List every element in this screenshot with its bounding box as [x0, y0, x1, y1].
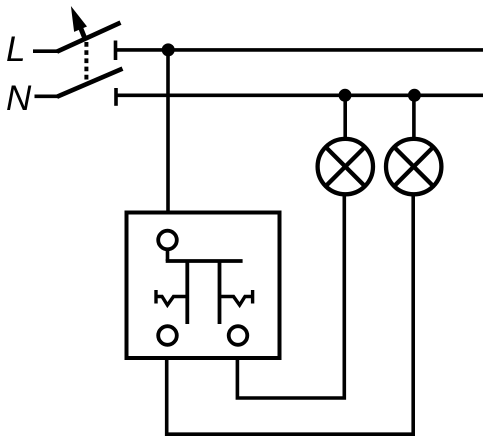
- internal horizontal bar: [166, 259, 243, 263]
- contact T-bar (N pole): [114, 88, 118, 106]
- wire N bus to lamp E1: [343, 95, 347, 140]
- actuator arrow shaft: [80, 26, 86, 40]
- wire N stub: [35, 95, 59, 99]
- wire N bus: [116, 94, 483, 98]
- right contact zigzag: [220, 297, 253, 306]
- terminal circle (bottom right): [229, 326, 248, 345]
- left contact zigzag: [156, 297, 187, 306]
- svg-text:N: N: [6, 79, 32, 118]
- terminal circle (bottom left): [158, 326, 177, 345]
- junction dot N / lamp E2: [408, 89, 421, 102]
- internal right vertical: [218, 261, 222, 324]
- mechanical linkage (dashed): [84, 42, 88, 80]
- junction dot on L bus: [162, 43, 175, 56]
- junction dot N / lamp E1: [339, 89, 352, 102]
- actuator arrow head: [71, 6, 87, 32]
- wire N bus to lamp E2: [412, 95, 416, 140]
- right contact T-bar: [251, 290, 254, 304]
- wire L stub: [33, 49, 58, 53]
- switch unit box: [127, 213, 280, 359]
- wire switch output 1 to lamp E2: [167, 195, 414, 435]
- wire from L bus down to switch unit: [166, 50, 170, 212]
- svg-text:L: L: [6, 30, 25, 69]
- internal left vertical: [185, 261, 189, 324]
- switch blade (N pole): [57, 69, 123, 97]
- lamp E2: [386, 139, 441, 194]
- wire L bus: [116, 48, 483, 52]
- terminal circle (top, common): [158, 231, 177, 250]
- left contact T-bar: [154, 290, 157, 304]
- wire terminal to bar: [166, 249, 170, 261]
- contact T-bar (L pole): [114, 41, 118, 61]
- wire switch output 2 to lamp E1: [237, 195, 344, 399]
- lamp E1: [318, 139, 373, 194]
- switch blade (L pole): [57, 23, 121, 52]
